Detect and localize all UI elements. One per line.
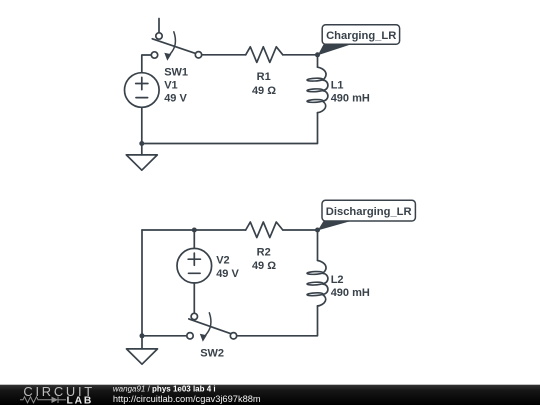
wire V1 to ground (141, 107, 143, 143)
svg-text:490 mH: 490 mH (331, 93, 370, 105)
wire SW2 to L2 (237, 306, 318, 336)
svg-text:SW1: SW1 (164, 66, 188, 78)
svg-text:Discharging_LR: Discharging_LR (326, 206, 412, 218)
wire SW1 to V1 (142, 55, 152, 73)
node ground junction 1 (139, 141, 144, 146)
voltage source V2 (177, 248, 212, 283)
svg-text:Charging_LR: Charging_LR (326, 30, 396, 42)
svg-text:49 Ω: 49 Ω (252, 260, 276, 272)
wire left rail circuit 2 (141, 230, 143, 336)
svg-text:SW2: SW2 (200, 348, 224, 360)
wire SW1 to R1 (202, 54, 246, 56)
inductor L1 (307, 67, 328, 113)
voltage source V1 (125, 73, 160, 108)
svg-text:R1: R1 (257, 71, 271, 83)
wire V2 to SW2 (193, 283, 195, 313)
svg-text:490 mH: 490 mH (331, 287, 370, 299)
node V2 junction (192, 228, 197, 233)
flag Charging_LR (318, 25, 400, 56)
wire SW2 left throw to rail (142, 335, 187, 337)
svg-text:V2: V2 (216, 255, 229, 267)
wire node to V2 (193, 230, 195, 248)
wire node to L2 (317, 230, 319, 260)
wire R2 to node (283, 229, 318, 231)
svg-text:49 V: 49 V (216, 268, 239, 280)
svg-text:V1: V1 (164, 79, 177, 91)
node Discharging_LR junction (315, 228, 320, 233)
logo squiggle (20, 397, 66, 403)
ground 2 (127, 336, 158, 364)
resistor R2 (246, 222, 283, 238)
svg-text:http://circuitlab.com/cgav3j69: http://circuitlab.com/cgav3j697k88m (113, 394, 261, 404)
resistor R1 (246, 47, 283, 63)
wire top of circuit 2 (142, 229, 246, 231)
inductor L2 (307, 261, 328, 307)
wire bottom rail (ground to L1) (142, 113, 318, 144)
ground 1 (126, 144, 157, 171)
svg-text:L2: L2 (331, 274, 344, 286)
svg-text:LAB: LAB (67, 396, 94, 405)
svg-text:49 V: 49 V (164, 93, 187, 105)
node Charging_LR junction (315, 52, 320, 57)
switch SW2 (187, 313, 237, 342)
flag Discharging_LR (318, 200, 416, 230)
svg-text:wanga91 / phys 1e03 lab 4 i: wanga91 / phys 1e03 lab 4 i (113, 385, 216, 394)
node ground junction 2 (140, 333, 145, 338)
svg-text:R2: R2 (257, 246, 271, 258)
switch SW1 (151, 32, 201, 61)
svg-text:L1: L1 (331, 79, 344, 91)
wire stub above SW1 (158, 19, 160, 33)
svg-text:49 Ω: 49 Ω (252, 85, 276, 97)
wire R1 to node (283, 54, 318, 56)
wire node to L1 (317, 55, 319, 67)
